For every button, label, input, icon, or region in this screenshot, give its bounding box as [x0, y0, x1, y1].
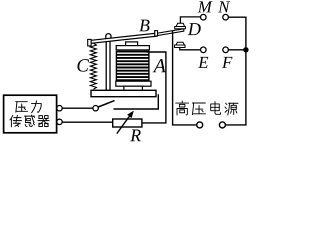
coil top block	[126, 42, 138, 46]
coil top plate	[116, 46, 149, 50]
rheostat R body	[113, 119, 142, 127]
pressure sensor box 压力传感器	[4, 95, 57, 133]
wire sensor-bottom to rheostat	[62, 121, 112, 123]
sensor terminal top	[57, 106, 62, 111]
label C	[77, 59, 89, 71]
terminal F	[223, 47, 229, 53]
terminal N	[223, 14, 229, 20]
terminal M	[201, 14, 207, 20]
label E	[198, 57, 208, 68]
wire F to right riser	[228, 49, 246, 51]
armature contact leaf	[155, 29, 184, 36]
supply terminal left	[197, 122, 203, 128]
label D	[188, 23, 201, 35]
pivot loop	[106, 34, 111, 39]
sensor terminal bottom	[57, 119, 62, 124]
label M	[198, 1, 213, 12]
label A iron core	[153, 59, 166, 72]
armature left end cap	[88, 39, 91, 46]
coil bottom plate	[116, 81, 151, 86]
label 高压电源 high-voltage supply	[176, 101, 238, 115]
armature bar B	[91, 33, 157, 43]
coil bottom block	[124, 86, 142, 90]
wire armature to supply riser	[173, 31, 197, 125]
wire switch to coil riser	[114, 94, 159, 109]
wire N to right riser	[226, 17, 246, 125]
label R	[130, 130, 141, 142]
rheostat arrow	[117, 114, 131, 134]
switch blade	[98, 101, 114, 107]
switch S pivot	[93, 106, 98, 111]
terminal E	[201, 47, 207, 53]
relay base plate	[91, 90, 156, 96]
wire rheostat to coil-top riser	[142, 52, 166, 123]
coil windings	[116, 51, 148, 81]
support post	[105, 40, 107, 90]
spring C	[90, 43, 96, 89]
wire sensor-top to switch	[62, 107, 93, 109]
label B	[139, 20, 149, 32]
upper fixed contact (to M)	[180, 17, 200, 24]
label F	[222, 57, 232, 68]
lower fixed contact (to E)	[176, 42, 184, 45]
label N	[218, 1, 230, 12]
supply terminal right	[219, 122, 225, 128]
junction node	[243, 47, 248, 52]
armature mid cap	[155, 31, 158, 36]
